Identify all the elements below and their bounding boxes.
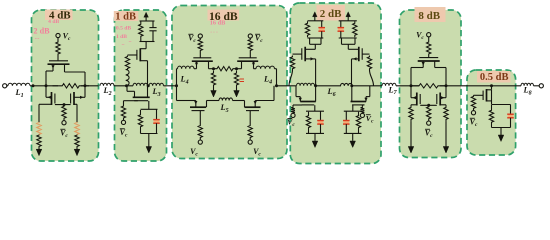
wire RC bottom bar right (339, 37, 357, 39)
wire M17 gate lead (474, 94, 484, 96)
wire M10 gate lead (293, 53, 302, 55)
resistor R8 loop (138, 110, 142, 132)
ground G3 (146, 147, 152, 154)
wire M17 top leg (487, 89, 492, 91)
wire M11 bottom leg (352, 58, 359, 60)
wire to M3 drain leg (74, 96, 85, 98)
wire M11 leg down to main J2 (351, 59, 353, 86)
capacitor C8 red (508, 114, 514, 117)
supply arrow box2 (144, 12, 149, 17)
wire out of 16dB cell (277, 85, 297, 87)
wire pi left (309, 38, 311, 44)
resistor R7b gate bias (121, 105, 125, 119)
wire M10 top leg (305, 48, 315, 50)
transistor M16 shunt (437, 93, 440, 106)
arrow M1 source (51, 65, 54, 69)
resistor R9 series mid (214, 67, 237, 71)
terminal Vc-bar box5 (427, 121, 431, 125)
wire M5 to loop (148, 101, 150, 109)
wire up to main right (273, 86, 275, 101)
wire L4 down to main (176, 69, 178, 86)
wire (249, 51, 251, 58)
transistor M13 lower right (351, 102, 367, 105)
wire M1 left leg (52, 64, 54, 71)
wire A5 down (410, 86, 412, 98)
wire to ground (500, 128, 502, 136)
wire Vc to R2 (57, 38, 59, 41)
wire RC bottom bar (140, 41, 155, 43)
wire M17 right side (491, 90, 493, 105)
svg-text:2 dB: 2 dB (33, 26, 50, 35)
wire M5 left jog (127, 90, 135, 92)
arrow M10 (311, 57, 315, 60)
wire to M2 drain leg (46, 96, 52, 98)
arrow M7 (252, 63, 255, 67)
wire loop bottom bar (306, 132, 324, 134)
wire to node (237, 68, 242, 70)
resistor R26 gate bias (427, 106, 431, 120)
wire arc to main line right (370, 70, 374, 86)
terminal Vc box3 left (198, 140, 202, 144)
wire to output port (534, 85, 540, 87)
transistor M3 shunt (71, 92, 74, 105)
resistor R6 load (139, 21, 143, 40)
transistor M6 series left (192, 58, 213, 61)
node B3 (275, 84, 278, 87)
resistor R27 shunt (409, 105, 413, 122)
node A1 (45, 84, 48, 87)
wire M12 inner leg to main (315, 86, 317, 102)
wire M1 left down to node A1 (45, 71, 47, 86)
inductor L6b (341, 83, 352, 85)
supply arrow box4 right (346, 12, 351, 17)
wire into 16dB cell (164, 85, 177, 87)
inductor L3g vertical (126, 70, 129, 86)
ground box4 left (312, 141, 318, 148)
svg-text:L1: L1 (14, 88, 23, 99)
inductor L4 left (178, 66, 194, 69)
title highlight 4 dB (45, 10, 73, 21)
wire M7 left leg (241, 61, 243, 68)
wire (473, 110, 475, 111)
ground G5 (234, 91, 240, 98)
wire into 4dB cell (30, 85, 58, 87)
terminal Vc-bar box2 (121, 120, 125, 124)
wire M8 right leg (206, 101, 208, 108)
wire (254, 68, 257, 70)
wire M8 gate down (199, 111, 201, 125)
inductor L8 (521, 83, 533, 86)
arrow M12 (299, 98, 302, 102)
wire (177, 68, 178, 70)
title highlight 0.5 dB (477, 71, 511, 83)
resistor R10 shunt (211, 71, 215, 88)
wire pi left (341, 38, 343, 44)
inductor L3 first half (133, 83, 147, 86)
wire M3 source leg (74, 103, 77, 105)
wire loop bottom bar (141, 133, 158, 135)
wire to M16 (440, 97, 446, 99)
wire down to node B5 (445, 68, 447, 86)
arrow M11 (353, 57, 357, 60)
attenuator cell box 2 dB (290, 3, 381, 164)
wire jog right (435, 67, 446, 69)
wire jog (366, 96, 370, 98)
wire M9 right leg (254, 101, 256, 108)
node A6 (490, 84, 493, 87)
transistor M2 shunt (52, 92, 55, 105)
node J1 (314, 84, 317, 87)
transistor M5 (133, 97, 150, 100)
wire M13 inner leg to main (351, 86, 353, 102)
wire L5 to M9 (233, 100, 245, 102)
node gates box1 (63, 103, 66, 106)
wire M14 right leg (434, 61, 436, 68)
resistor R23 gate bias (361, 107, 365, 114)
wire M9 to right node (255, 100, 274, 102)
wire R2 to gate M1 (57, 55, 59, 60)
wire M6 right leg (208, 61, 210, 68)
wire up to main (295, 86, 297, 97)
wire (140, 40, 142, 42)
arrow M6 (195, 63, 198, 67)
transistor M11 upper right (359, 47, 362, 62)
wire to terminal (123, 119, 125, 120)
svg-text:16 dB: 16 dB (210, 19, 226, 26)
wire to cell edge (352, 85, 382, 87)
wire (249, 139, 251, 141)
wire loop bottom bar right (344, 132, 362, 134)
terminal Vc-bar box6 (471, 111, 475, 115)
wire (236, 88, 238, 91)
resistor R16 load (305, 21, 309, 37)
wire M13 gate lead (362, 104, 364, 106)
svg-text:L2: L2 (102, 86, 111, 97)
ground box4 right (350, 141, 356, 148)
wire up to main (369, 86, 371, 97)
resistor R19 loop (356, 112, 360, 132)
wire (199, 139, 201, 141)
wire (249, 37, 251, 40)
wire M12 outer leg (299, 97, 301, 102)
wire coil to M6 (194, 68, 197, 70)
wire (292, 105, 294, 107)
wire (275, 68, 277, 70)
wire M2 source down (38, 104, 40, 123)
inductor L2 (100, 83, 114, 86)
transistor M14 bypass 8dB (418, 58, 440, 61)
wire down (410, 122, 412, 147)
wire pi bar (310, 43, 321, 45)
ground G8 (408, 147, 414, 154)
wire from input port (7, 85, 8, 87)
capacitor C1 load (149, 21, 156, 42)
wire M8 to L5 (207, 100, 220, 102)
wire loop to ground (148, 134, 150, 147)
wire RC top bar (308, 20, 324, 22)
wire M3 source down (76, 104, 78, 123)
inductor L3 second half (149, 83, 163, 86)
ground G4 (211, 91, 217, 98)
wire loop top bar box6 (492, 104, 511, 106)
attenuator cell box 8 dB (400, 10, 462, 158)
resistor R29 gate (471, 95, 475, 109)
gate stub M5 (137, 100, 139, 102)
capacitor C5 red (338, 28, 344, 31)
wire gate link box5 (420, 104, 437, 106)
resistor R18 loop (306, 112, 310, 132)
capacitor C7 red loop (343, 121, 349, 124)
resistor R15 gate M7 (248, 39, 252, 51)
wire supply to RC (145, 17, 147, 21)
wire M4 top leg (140, 48, 146, 50)
wire RC to M4 (145, 42, 147, 49)
wire RC top bar right (339, 20, 357, 22)
node A3 (175, 84, 178, 87)
wire loop bottom bar box6 (492, 127, 511, 129)
wire arc to main line left (289, 70, 293, 86)
wire node B1 down (84, 86, 86, 98)
wire to loop left (314, 105, 316, 111)
wire to loop right (352, 105, 354, 111)
wire M1 left jog (46, 70, 53, 72)
attenuator cell box 4 dB (32, 10, 99, 161)
wire to terminal (63, 119, 65, 121)
wire M9 gate down (249, 111, 251, 125)
transistor M15 shunt (417, 93, 420, 106)
wire (428, 37, 430, 41)
wire down (445, 122, 447, 147)
arrow M15 (413, 96, 417, 99)
capacitor C2 red (154, 120, 160, 123)
ground G1 (36, 149, 42, 156)
arrow M13 (364, 98, 367, 102)
svg-text:0.5 dB: 0.5 dB (116, 26, 132, 32)
wire M17 bottom leg (487, 100, 492, 102)
arrow M3 drain (80, 96, 84, 99)
wire gate down (123, 101, 125, 105)
svg-text:8 dB: 8 dB (418, 10, 440, 22)
terminal Vc box3 right (248, 140, 252, 144)
node B5 (445, 84, 448, 87)
wire M5 gate lead (124, 100, 138, 102)
resistor R5 shunt (75, 135, 79, 148)
wire to ground (314, 133, 316, 140)
wire (428, 55, 430, 57)
resistor R24 series 8dB (411, 84, 446, 88)
svg-text:0.5 dB: 0.5 dB (480, 72, 509, 83)
wire gate link M2 M3 (55, 104, 71, 106)
resistor R12 gate M8 (198, 125, 202, 139)
capacitor C3 red small (240, 79, 245, 82)
wire M8 left leg (195, 101, 197, 108)
svg-text:1 dB: 1 dB (116, 34, 127, 40)
resistor RR1 red (37, 122, 41, 135)
wire M6 left leg (196, 61, 198, 68)
attenuator cell box 0.5 dB (467, 70, 516, 155)
ground G9 (443, 147, 449, 154)
terminal Vc-bar box4 right (360, 113, 364, 117)
wire supply (314, 16, 316, 21)
wire pi right (354, 38, 356, 44)
transistor M9 lower right (245, 107, 261, 110)
node B2 (147, 84, 150, 87)
transistor M7 series right (237, 58, 258, 61)
capacitor C4 red (319, 28, 325, 31)
wire M15 source (411, 104, 417, 106)
wire loop top bar right (344, 110, 362, 112)
inductor L6a (297, 83, 315, 86)
wire B5 down (445, 86, 447, 98)
wire pi bar (342, 43, 356, 45)
resistor R4 shunt (37, 135, 41, 148)
wire to M15 (411, 97, 417, 99)
wire to ground (76, 147, 78, 150)
wire (428, 120, 430, 122)
wire M5 left leg (134, 91, 136, 97)
wire M11 top leg (348, 48, 359, 50)
transistor M4 (137, 48, 140, 61)
wire loop top bar (141, 108, 158, 110)
terminal Vc box5 (427, 33, 431, 37)
svg-text:1 dB: 1 dB (115, 11, 136, 22)
svg-text:4 dB: 4 dB (48, 19, 59, 25)
inductor L5 (219, 98, 233, 101)
resistor RR2 red (75, 122, 79, 135)
terminal Vc-bar box3 left (198, 34, 202, 38)
wire M1 right jog (65, 71, 86, 73)
wire (191, 100, 196, 102)
resistor R21 gate (367, 56, 371, 71)
wire jog left (411, 67, 423, 69)
wire (358, 132, 360, 134)
terminal Vc box1 (56, 33, 60, 37)
wire M4 to main line (147, 61, 149, 86)
svg-text:L7: L7 (387, 85, 397, 96)
wire M1 right down to node B1 (84, 72, 86, 86)
wire main to M5 right leg (147, 86, 149, 97)
wire R7 to coil (126, 69, 128, 71)
supply arrow box4 left (313, 12, 318, 17)
wire (213, 88, 215, 91)
inductor L4 right (256, 66, 274, 69)
wire pi to FET leg (347, 44, 349, 49)
wire M14 left leg (422, 61, 424, 68)
terminal Vc-bar box4 left (291, 113, 295, 117)
wire to gate (199, 51, 201, 58)
wire to ground (38, 147, 40, 150)
wire down to node A5 (410, 68, 412, 86)
wire (140, 132, 142, 134)
wire out of 8dB cell (440, 85, 467, 87)
arrow M8 (194, 101, 197, 105)
wire M7 right leg (253, 61, 255, 68)
inductor L1 (8, 83, 30, 86)
svg-text:· · ·: · · · (210, 31, 218, 36)
wire M16 source (440, 104, 446, 106)
resistor R14 gate M6 (198, 39, 202, 51)
wire M2 source leg (39, 103, 52, 105)
title highlight 8 dB (415, 7, 446, 22)
terminal Vc-bar box3 right (248, 34, 252, 38)
svg-text:L8: L8 (522, 86, 531, 97)
wire (315, 85, 342, 87)
transistor M17 (483, 89, 486, 102)
wire to node (209, 68, 214, 70)
wire M11 gate lead (362, 53, 369, 55)
resistor R28 shunt (444, 105, 448, 122)
title highlight 1 dB (114, 11, 139, 21)
ground G2 (74, 149, 80, 156)
resistor R17 load (353, 21, 357, 37)
wire to ground (352, 133, 354, 140)
inductor L7 (382, 83, 396, 86)
wire M12 gate lead (293, 104, 302, 106)
wire pi to FET leg (314, 44, 316, 49)
svg-text:··: ·· (121, 44, 125, 49)
wire M13 outer leg (365, 97, 367, 102)
node C3b (235, 67, 238, 70)
junction (32, 84, 35, 87)
resistor R2 gate of M1 (56, 41, 60, 55)
wire L4 down to main right (276, 69, 278, 86)
transistor M1 bypass 4dB (48, 61, 70, 64)
resistor R25 gate M14 (427, 41, 431, 55)
wire M4 gate lead (128, 54, 137, 56)
amplifier cell box 1 dB (115, 10, 167, 161)
resistor R22 gate bias (291, 107, 295, 114)
resistor R3 gate bias (62, 106, 66, 120)
resistor R20 gate (290, 56, 294, 71)
wire (308, 132, 310, 134)
ground G10 (498, 135, 504, 142)
resistor R13 gate M9 (248, 125, 252, 139)
resistor R30 loop (489, 105, 493, 128)
transistor M10 upper left (302, 47, 305, 62)
node C3a (212, 67, 215, 70)
wire M10 leg down to main J1 (315, 59, 317, 86)
wire (81, 85, 99, 87)
wire (199, 37, 201, 40)
wire M5 left up to line (126, 86, 128, 92)
wire RC bottom bar (308, 37, 324, 39)
wire to M8 (177, 100, 191, 102)
resistor R7 gate (125, 56, 129, 70)
wire node A3 down (176, 86, 178, 101)
svg-text:···: ··· (34, 37, 39, 42)
svg-text:··: ·· (128, 41, 132, 46)
wire into 1dB cell (114, 85, 133, 87)
wire loop top bar (306, 110, 324, 112)
arrow M2 drain (48, 96, 52, 99)
node A5 (410, 84, 413, 87)
input port P1 (3, 84, 7, 88)
wire M9 left leg (244, 101, 246, 108)
title highlight 16 dB (208, 10, 240, 21)
node A2 (125, 84, 128, 87)
wire node A6 down (491, 86, 493, 90)
wire RC top bar (140, 20, 155, 22)
resistor R11 shunt (234, 71, 238, 88)
wire M10 bottom leg (305, 58, 315, 60)
capacitor C6 red loop (318, 121, 324, 124)
node B1 (84, 84, 87, 87)
wire M4 bottom leg (140, 60, 147, 62)
node J2 (350, 84, 353, 87)
wire jog (296, 96, 300, 98)
title highlight 2 dB (317, 5, 346, 21)
wire into 8dB cell (396, 85, 419, 87)
